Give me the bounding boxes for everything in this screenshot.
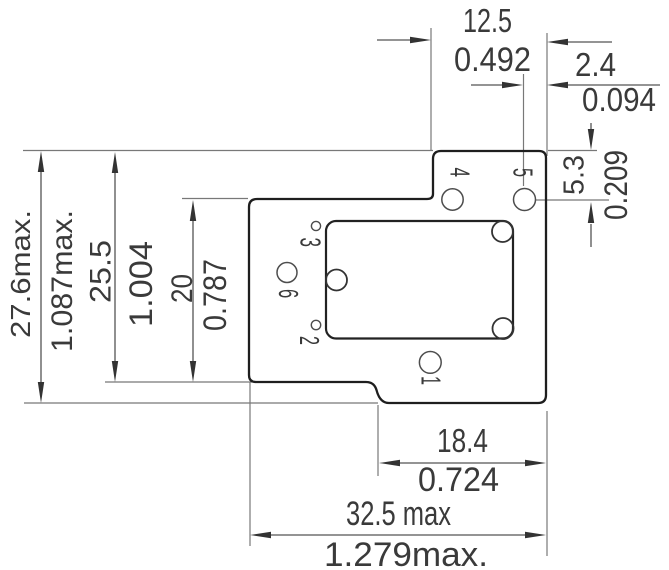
svg-text:32.5 max: 32.5 max [346, 495, 451, 533]
pin 1 circle [419, 352, 441, 374]
mounting circle left [326, 270, 347, 291]
svg-text:3: 3 [294, 238, 326, 248]
svg-text:0.787: 0.787 [197, 259, 233, 331]
svg-text:0.492: 0.492 [454, 41, 531, 79]
relay body outline [249, 151, 546, 403]
svg-text:0.094: 0.094 [582, 81, 656, 118]
dim 5.3 top arrow [588, 123, 594, 150]
svg-text:12.5: 12.5 [463, 2, 512, 39]
pin 6 circle [277, 263, 297, 283]
extension line x=250 left edge down [249, 382, 251, 546]
extension line x=547 right edge down [546, 411, 548, 556]
svg-text:1.279max.: 1.279max. [324, 536, 488, 570]
svg-text:25.5: 25.5 [85, 240, 118, 303]
pin 4 circle [442, 189, 463, 210]
pin 3 circle [311, 221, 320, 230]
extension line step-bottom extended left [105, 381, 252, 383]
dim line 25.5 vertical [112, 152, 118, 382]
svg-text:20: 20 [166, 274, 199, 303]
dim line 20 vertical [190, 200, 196, 382]
dim 32.5 horizontal [250, 532, 546, 538]
svg-text:27.6max.: 27.6max. [5, 210, 36, 338]
extension line body-top extended left [182, 198, 248, 200]
svg-text:2: 2 [294, 336, 325, 345]
extension line tab-top extended left [23, 150, 433, 152]
dim 5.3 bottom arrow [588, 202, 594, 247]
svg-text:18.4: 18.4 [437, 422, 488, 459]
dim 2.4 right arrow [547, 82, 660, 88]
svg-text:1.087max.: 1.087max. [46, 210, 79, 352]
svg-text:2.4: 2.4 [575, 46, 616, 83]
svg-text:4: 4 [445, 168, 476, 178]
svg-text:6: 6 [273, 289, 304, 298]
extension line x=431 for 12.5 [430, 28, 432, 151]
extension line pin5 centerline [523, 74, 525, 186]
extension line pin5 row extended right [536, 199, 609, 201]
inner coil rectangle [326, 221, 513, 339]
extension line x=547 right edge up [546, 33, 548, 156]
dim line 27.6 max vertical [38, 151, 44, 403]
extension line x=378 step [377, 405, 379, 476]
mounting circle top-right [492, 221, 513, 242]
dim 12.5 right arrow [547, 39, 612, 45]
svg-text:1: 1 [416, 376, 447, 385]
pin 2 circle [311, 320, 320, 329]
svg-text:0.209: 0.209 [598, 150, 634, 220]
dim 18.4 horizontal [379, 460, 546, 466]
pin 5 circle [514, 189, 536, 211]
svg-text:0.724: 0.724 [418, 461, 499, 499]
svg-text:5.3: 5.3 [559, 155, 591, 195]
mounting circle bottom-right [493, 318, 514, 339]
dim 12.5 left arrow [377, 37, 431, 43]
svg-text:5: 5 [508, 168, 539, 177]
dim 2.4 left arrow [471, 82, 523, 88]
extension line tab-top extended right [548, 150, 597, 152]
extension line body-bottom extended left [24, 402, 378, 404]
svg-text:1.004: 1.004 [123, 241, 159, 327]
